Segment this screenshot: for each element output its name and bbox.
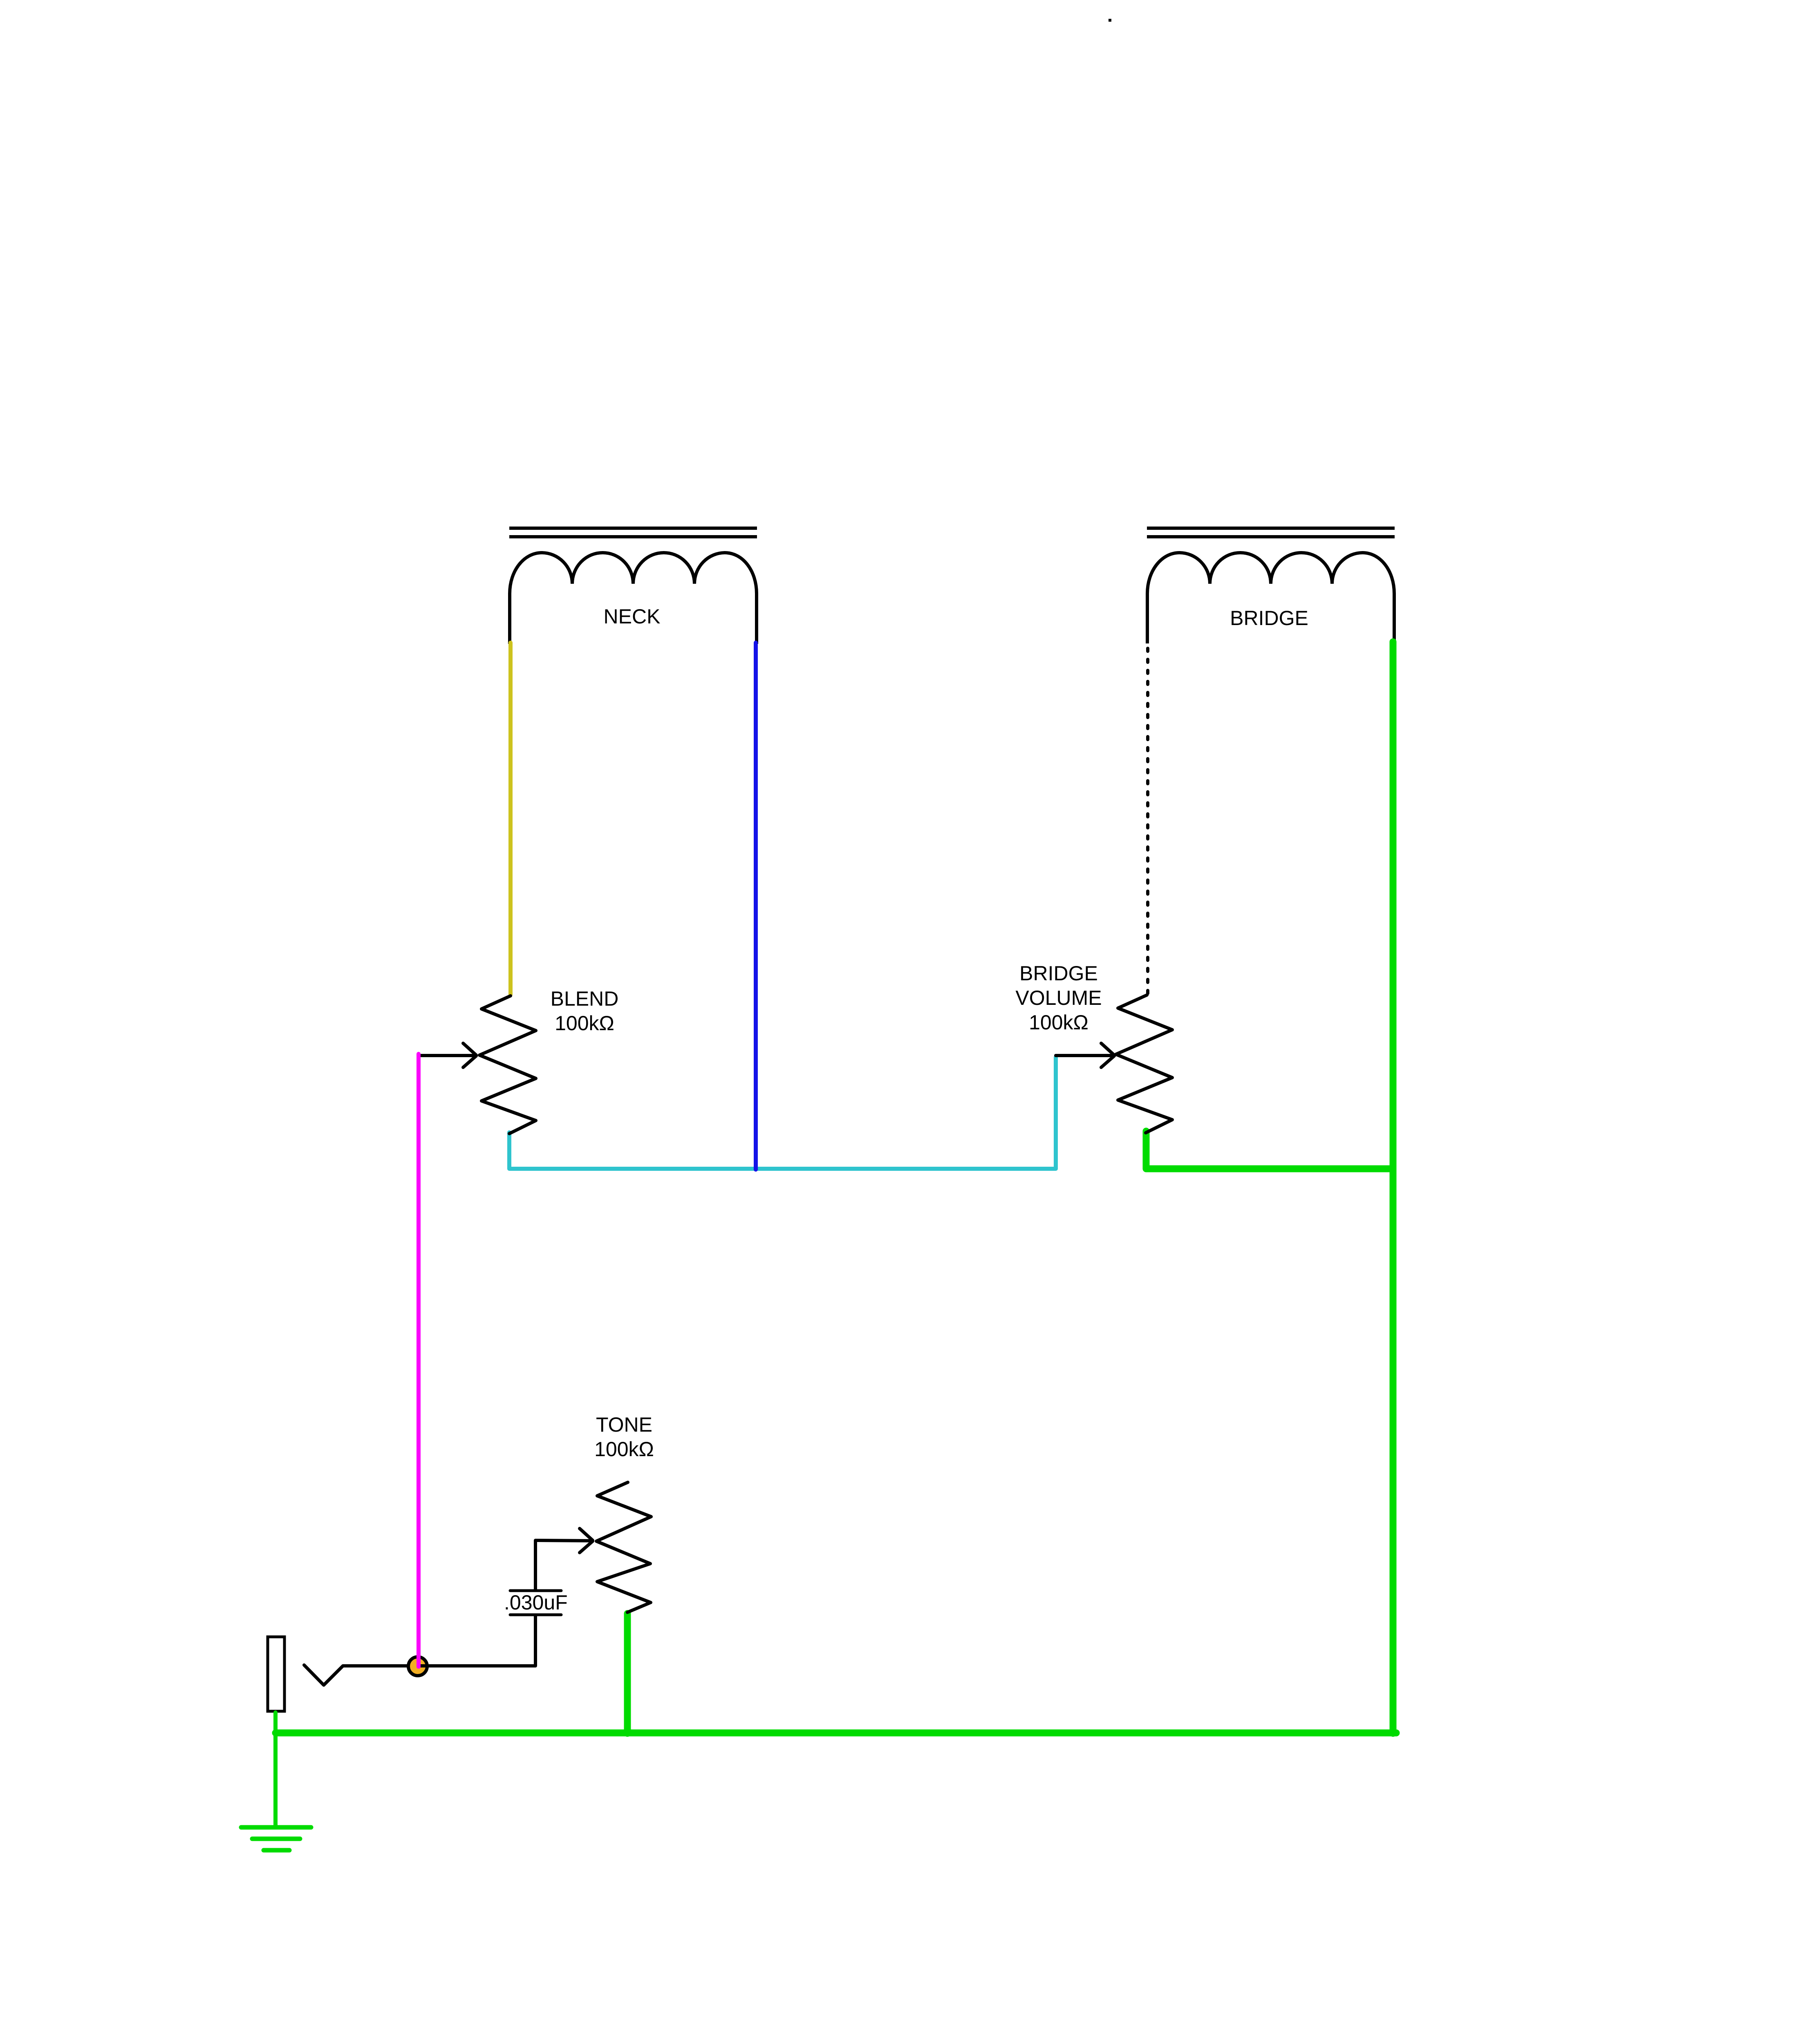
svg-text:VOLUME: VOLUME xyxy=(1015,986,1102,1009)
wire yellow: neck hot lead to BLEND pot top xyxy=(508,643,513,995)
pickup NECK coil L1 xyxy=(510,553,757,644)
svg-text:NECK: NECK xyxy=(604,605,661,628)
ground xyxy=(241,1827,311,1850)
stray mark (page corner dot) xyxy=(1109,19,1111,22)
wire cyan: R1 bottom to R2 wiper xyxy=(509,1057,1056,1169)
svg-text:TONE: TONE xyxy=(596,1413,652,1436)
node A output junction (orange) xyxy=(408,1657,427,1676)
wire green: jack sleeve to ground xyxy=(273,1712,278,1827)
wire green: R3 bottom to ground bus xyxy=(624,1614,631,1733)
pickup BRIDGE coil L2 xyxy=(1147,553,1394,643)
wire green: bridge return lead down to ground bus xyxy=(1390,642,1397,1733)
pickup NECK magnet bar xyxy=(509,528,757,537)
svg-text:100kΩ: 100kΩ xyxy=(594,1438,654,1461)
wiper arrow of R2 BRIDGE VOLUME xyxy=(1056,1043,1114,1067)
svg-text:BRIDGE: BRIDGE xyxy=(1230,607,1308,630)
jack J1 output sleeve xyxy=(268,1637,284,1711)
wire magenta: R1 wiper to node A xyxy=(417,1054,421,1667)
wire stub from node A to capacitor branch xyxy=(419,1664,430,1667)
pickup BRIDGE magnet bar xyxy=(1147,528,1395,537)
svg-text:.030uF: .030uF xyxy=(504,1591,568,1614)
wire green: R2 bottom to bridge return wire xyxy=(1146,1131,1393,1169)
wire blue: neck return lead to cyan junction xyxy=(754,643,758,1170)
potentiometer R1 BLEND 100k (resistive element) xyxy=(479,996,536,1134)
wire green: ground bus xyxy=(275,1730,1396,1737)
jack J1 tip contact and output wire to node A xyxy=(304,1665,535,1685)
capacitor C1 .030uF (plates and leads) xyxy=(510,1540,561,1666)
wiper arrow of R3 TONE xyxy=(535,1529,593,1553)
wiper arrow of R1 BLEND xyxy=(419,1043,476,1067)
svg-text:BLEND: BLEND xyxy=(551,987,619,1010)
svg-text:BRIDGE: BRIDGE xyxy=(1019,962,1098,985)
potentiometer R2 BRIDGE VOLUME 100k (resistive element) xyxy=(1116,995,1172,1133)
svg-text:100kΩ: 100kΩ xyxy=(555,1012,614,1035)
wire dashed: bridge hot lead to BRIDGE VOLUME pot top xyxy=(1146,648,1149,994)
potentiometer R3 TONE 100k (resistive element) xyxy=(596,1482,651,1612)
svg-text:100kΩ: 100kΩ xyxy=(1029,1011,1088,1034)
